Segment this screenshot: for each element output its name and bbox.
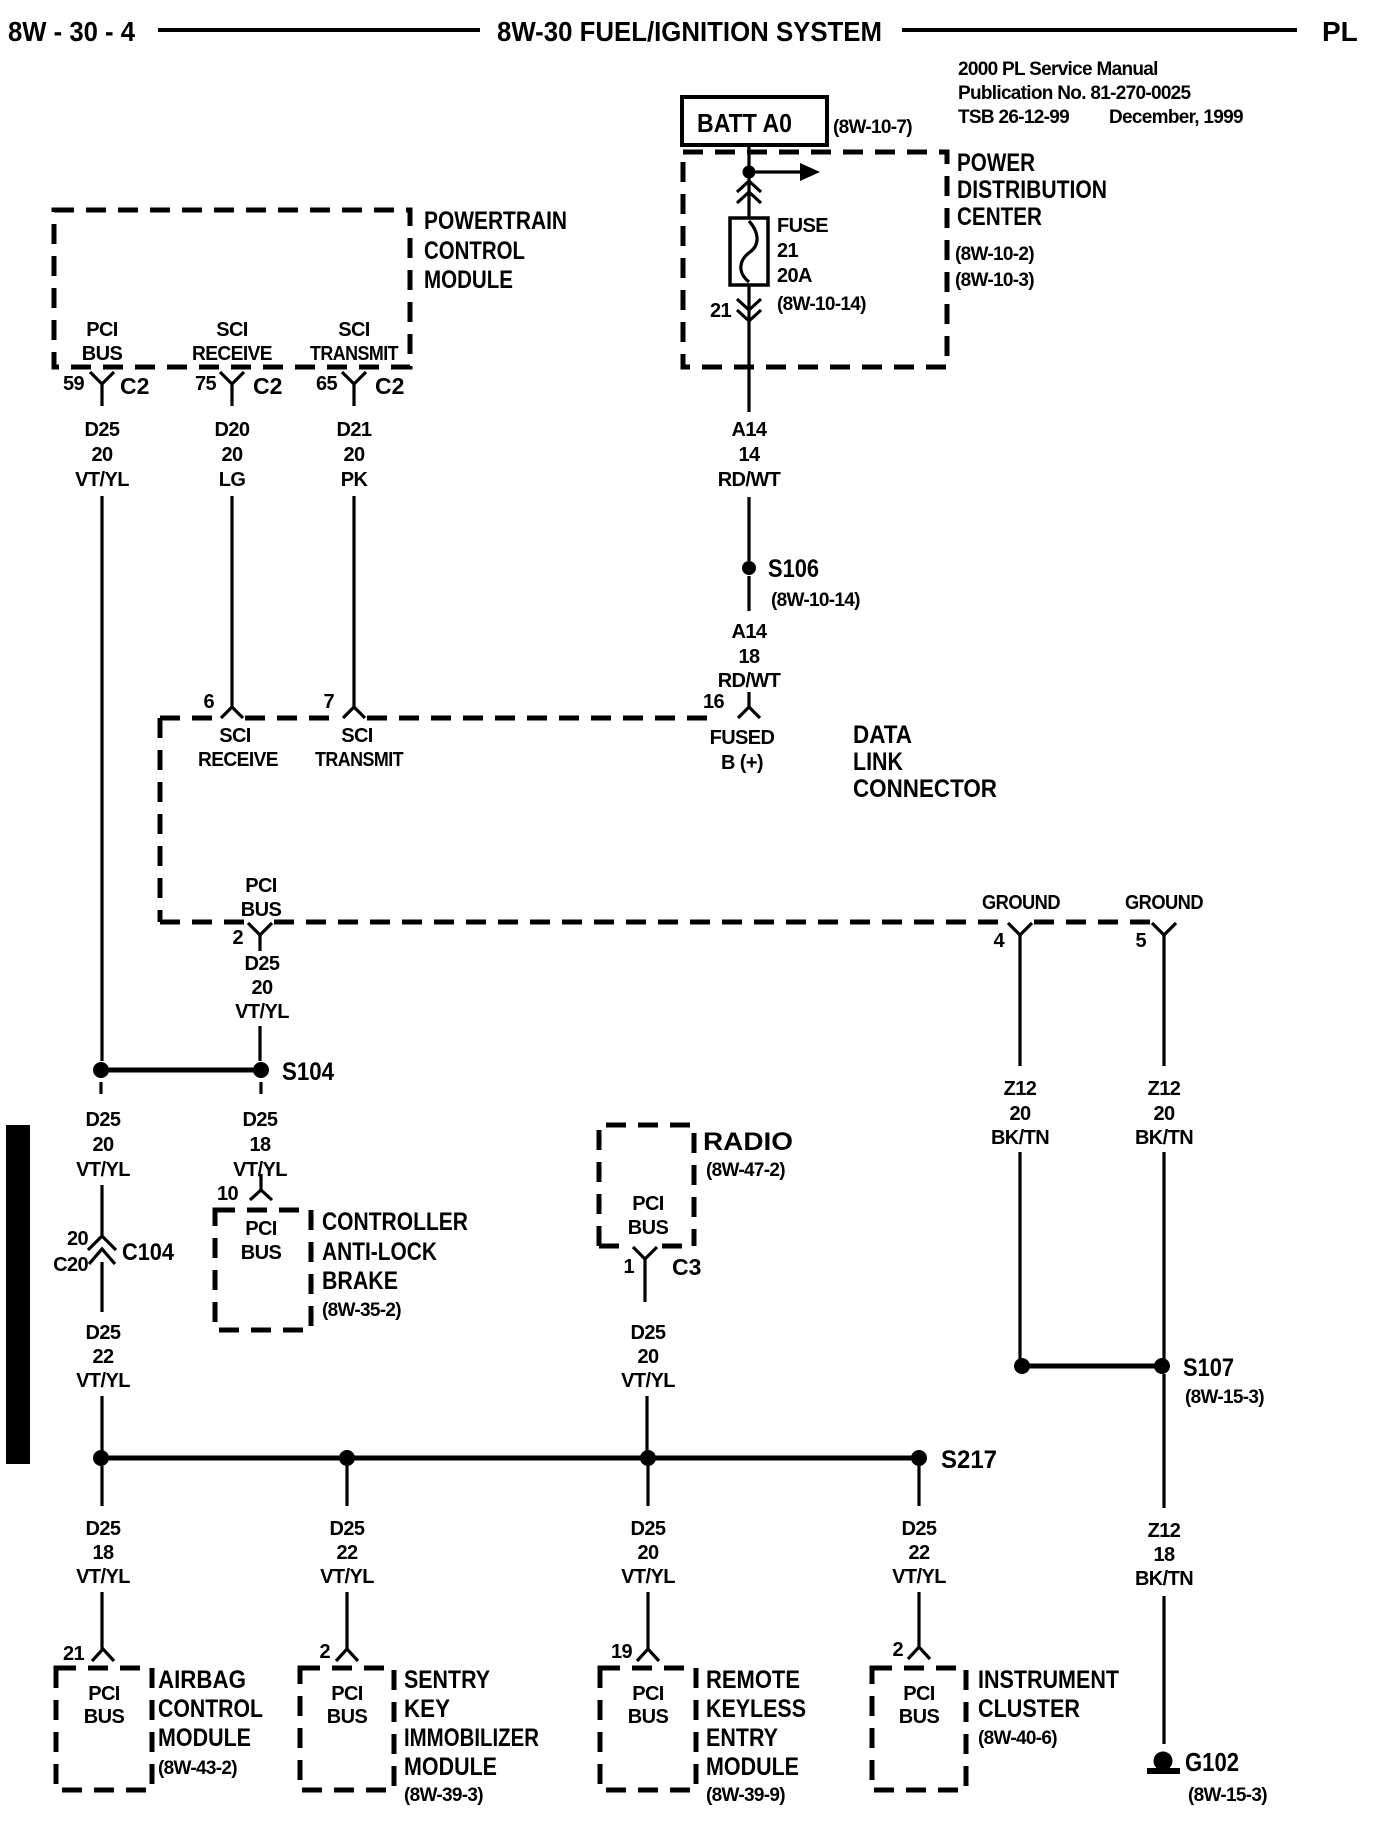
- node splice dot at PDC feed: [743, 166, 756, 179]
- wire S104 to CAB pin 10: [259, 1174, 262, 1192]
- svg-text:VT/YL: VT/YL: [76, 1566, 130, 1588]
- PCM pin label SCI RECEIVE: [192, 319, 272, 365]
- svg-text:(8W-40-6): (8W-40-6): [978, 1728, 1057, 1749]
- radio label: [703, 1128, 793, 1181]
- svg-text:20: 20: [1153, 1103, 1175, 1125]
- svg-text:Z12: Z12: [1004, 1078, 1037, 1100]
- svg-text:SENTRY: SENTRY: [404, 1666, 490, 1694]
- svg-text:CONTROLLER: CONTROLLER: [322, 1208, 468, 1236]
- instrument cluster label: [978, 1666, 1119, 1749]
- sentry key immobilizer module dashed box: [300, 1668, 394, 1790]
- svg-text:D25: D25: [243, 1109, 278, 1131]
- wire A14 to S106: [747, 497, 750, 561]
- ground G102 label: [1185, 1747, 1267, 1806]
- pin 1 connector C3 at radio: [633, 1247, 657, 1302]
- splice S217 dot 2: [339, 1450, 355, 1466]
- wire C104 to S217 upper: [100, 1262, 103, 1312]
- wire S217 to sentry lower: [345, 1592, 348, 1649]
- wire C104 to S217 lower: [100, 1396, 103, 1451]
- svg-text:RECEIVE: RECEIVE: [198, 749, 278, 771]
- CAB pin label PCI BUS: [241, 1218, 282, 1264]
- wire battery feed into PDC: [747, 146, 750, 218]
- svg-text:D21: D21: [337, 419, 372, 441]
- svg-text:CENTER: CENTER: [957, 203, 1042, 231]
- svg-text:18: 18: [249, 1134, 271, 1156]
- wire label D25 20 VT/YL below DLC pin 2: [235, 953, 289, 1023]
- wire label Z12 18 BK/TN: [1135, 1520, 1193, 1590]
- svg-text:(8W-39-9): (8W-39-9): [706, 1785, 785, 1806]
- svg-text:(8W-10-14): (8W-10-14): [777, 294, 866, 315]
- svg-text:BUS: BUS: [628, 1706, 669, 1728]
- svg-text:RD/WT: RD/WT: [718, 469, 781, 491]
- wire SCI RECEIVE to DLC pin 6: [230, 496, 233, 708]
- wire stub below S106: [747, 576, 750, 611]
- wire label A14 14 RD/WT: [718, 419, 781, 491]
- svg-text:KEY: KEY: [404, 1695, 450, 1723]
- svg-text:C3: C3: [672, 1254, 701, 1280]
- pin 2 connector at instrument cluster: [908, 1647, 930, 1659]
- svg-text:20A: 20A: [777, 265, 812, 287]
- wire S107 to G102 lower: [1162, 1596, 1165, 1744]
- svg-text:1: 1: [623, 1256, 634, 1278]
- svg-text:INSTRUMENT: INSTRUMENT: [978, 1666, 1119, 1694]
- svg-text:LINK: LINK: [853, 748, 903, 776]
- svg-text:20: 20: [637, 1542, 659, 1564]
- splice S217 dot 3: [640, 1450, 656, 1466]
- svg-text:20: 20: [1009, 1103, 1031, 1125]
- remote keyless entry module dashed box: [600, 1668, 696, 1790]
- svg-text:Z12: Z12: [1148, 1078, 1181, 1100]
- PCM pin label PCI BUS: [82, 319, 123, 365]
- sentry pin label PCI BUS: [327, 1683, 368, 1728]
- svg-text:(8W-15-3): (8W-15-3): [1188, 1785, 1267, 1806]
- radio dashed box: [599, 1125, 694, 1246]
- connector chevrons down at PDC exit: [737, 299, 761, 321]
- pin 2 connector at sentry module: [336, 1649, 358, 1661]
- header rule left: [158, 28, 480, 32]
- wire ground pin 4 to S107: [1018, 1152, 1021, 1359]
- svg-text:ANTI-LOCK: ANTI-LOCK: [322, 1238, 437, 1266]
- svg-text:December, 1999: December, 1999: [1109, 107, 1243, 128]
- svg-text:2: 2: [319, 1641, 330, 1663]
- wire label Z12 20 BK/TN left: [991, 1078, 1049, 1149]
- svg-text:BRAKE: BRAKE: [322, 1267, 398, 1295]
- PCM pin label SCI TRANSMIT: [310, 319, 398, 365]
- svg-text:(8W-43-2): (8W-43-2): [158, 1758, 237, 1779]
- wire label D21 20 PK: [337, 419, 372, 491]
- header rule right: [902, 28, 1297, 32]
- svg-text:(8W-47-2): (8W-47-2): [706, 1160, 785, 1181]
- pin 7 connector at DLC: [343, 707, 365, 718]
- radio pin label PCI BUS: [628, 1193, 669, 1239]
- sentry key immobilizer module label: [404, 1666, 539, 1806]
- svg-text:PCI: PCI: [331, 1683, 363, 1705]
- svg-text:21: 21: [710, 300, 732, 322]
- svg-text:C2: C2: [253, 373, 282, 399]
- svg-text:MODULE: MODULE: [424, 266, 513, 294]
- svg-text:RD/WT: RD/WT: [718, 670, 781, 692]
- svg-text:CONTROL: CONTROL: [158, 1695, 263, 1723]
- wire DLC pin 2 to S104: [258, 1026, 261, 1061]
- svg-text:RADIO: RADIO: [703, 1128, 793, 1156]
- svg-text:BUS: BUS: [327, 1706, 368, 1728]
- svg-text:16: 16: [703, 691, 725, 713]
- splice S107 label: [1183, 1354, 1264, 1408]
- pin 21 connector at airbag module: [92, 1649, 114, 1661]
- wire label D20 20 LG: [215, 419, 250, 491]
- svg-text:6: 6: [203, 691, 214, 713]
- svg-text:(8W-10-7): (8W-10-7): [833, 117, 912, 138]
- svg-text:A14: A14: [732, 621, 768, 643]
- svg-text:65: 65: [316, 373, 338, 395]
- splice S104 bus: [101, 1068, 261, 1073]
- svg-text:VT/YL: VT/YL: [235, 1001, 289, 1023]
- svg-text:BK/TN: BK/TN: [991, 1127, 1049, 1149]
- wire label D25 18 VT/YL below S104 right: [233, 1109, 287, 1181]
- svg-text:D25: D25: [86, 1109, 121, 1131]
- svg-text:SCI: SCI: [216, 319, 248, 341]
- svg-text:VT/YL: VT/YL: [892, 1566, 946, 1588]
- svg-text:FUSE: FUSE: [777, 215, 828, 237]
- svg-text:BUS: BUS: [628, 1217, 669, 1239]
- pin 4 connector at DLC: [1008, 923, 1032, 1066]
- svg-text:BATT A0: BATT A0: [697, 108, 792, 138]
- pin 75 connector C2: [220, 372, 244, 406]
- svg-text:20: 20: [92, 1134, 114, 1156]
- svg-text:BK/TN: BK/TN: [1135, 1127, 1193, 1149]
- svg-text:21: 21: [63, 1643, 85, 1665]
- airbag control module dashed box: [56, 1668, 152, 1790]
- svg-text:C20: C20: [53, 1254, 88, 1276]
- svg-text:PL: PL: [1322, 16, 1358, 47]
- wire S107 to G102 upper: [1162, 1374, 1165, 1508]
- svg-text:2: 2: [892, 1639, 903, 1661]
- svg-text:TSB 26-12-99: TSB 26-12-99: [958, 107, 1069, 128]
- splice S107 right dot: [1154, 1358, 1170, 1374]
- svg-text:S104: S104: [282, 1058, 334, 1086]
- wire label D25 22 VT/YL: [76, 1322, 130, 1392]
- svg-text:4: 4: [993, 930, 1005, 952]
- svg-text:2000 PL Service Manual: 2000 PL Service Manual: [958, 59, 1158, 80]
- svg-text:C104: C104: [122, 1239, 175, 1266]
- powertrain control module label: [424, 207, 567, 294]
- svg-text:5: 5: [1135, 930, 1146, 952]
- svg-text:20: 20: [91, 444, 113, 466]
- wire radio to S217: [645, 1396, 648, 1451]
- svg-text:Publication No. 81-270-0025: Publication No. 81-270-0025: [958, 83, 1192, 104]
- connector chevrons up at PDC: [737, 181, 761, 203]
- battery feed box BATT A0: [682, 97, 827, 145]
- airbag pin label PCI BUS: [84, 1683, 125, 1728]
- wire label Z12 20 BK/TN right: [1135, 1078, 1193, 1149]
- wire S217 to airbag lower: [100, 1592, 103, 1649]
- page edge black sidebar: [6, 1125, 30, 1464]
- wire label A14 18 RD/WT: [718, 621, 781, 692]
- svg-text:(8W-39-3): (8W-39-3): [404, 1785, 483, 1806]
- svg-text:20: 20: [343, 444, 365, 466]
- svg-text:VT/YL: VT/YL: [621, 1566, 675, 1588]
- svg-text:G102: G102: [1185, 1747, 1239, 1777]
- note service manual info block: [958, 59, 1243, 128]
- svg-text:MODULE: MODULE: [404, 1753, 497, 1781]
- svg-text:18: 18: [738, 646, 760, 668]
- svg-text:8W-30 FUEL/IGNITION SYSTEM: 8W-30 FUEL/IGNITION SYSTEM: [497, 16, 882, 47]
- pin 16 connector at DLC: [738, 707, 760, 718]
- svg-text:75: 75: [195, 373, 217, 395]
- in-line connector C104 chevrons: [88, 1236, 116, 1264]
- wire label D25 20 VT/YL: [621, 1518, 675, 1588]
- airbag control module label: [158, 1666, 263, 1779]
- ground G102 symbol: [1147, 1752, 1180, 1772]
- wire label D25 18 VT/YL: [76, 1518, 130, 1588]
- remote keyless entry module label: [706, 1666, 806, 1806]
- svg-text:FUSED: FUSED: [710, 727, 775, 749]
- svg-text:MODULE: MODULE: [706, 1753, 799, 1781]
- svg-text:18: 18: [92, 1542, 114, 1564]
- splice S106: [742, 561, 756, 575]
- svg-text:D25: D25: [85, 419, 120, 441]
- svg-text:SCI: SCI: [341, 725, 373, 747]
- svg-text:REMOTE: REMOTE: [706, 1666, 800, 1694]
- splice S107 bus: [1022, 1364, 1162, 1369]
- svg-text:GROUND: GROUND: [982, 892, 1060, 914]
- wire S217 to cluster lower: [917, 1592, 920, 1647]
- svg-text:LG: LG: [219, 469, 246, 491]
- svg-text:21: 21: [777, 240, 799, 262]
- wire S217 to cluster upper: [917, 1466, 920, 1506]
- splice S106 label: [768, 555, 860, 611]
- svg-text:TRANSMIT: TRANSMIT: [315, 749, 403, 771]
- svg-text:C2: C2: [375, 373, 404, 399]
- data link connector label: [853, 721, 997, 803]
- wire S217 to airbag upper: [100, 1466, 103, 1506]
- svg-text:CLUSTER: CLUSTER: [978, 1695, 1080, 1723]
- svg-text:S106: S106: [768, 555, 819, 583]
- svg-text:CONTROL: CONTROL: [424, 237, 525, 265]
- svg-text:BK/TN: BK/TN: [1135, 1568, 1193, 1590]
- svg-text:BUS: BUS: [82, 343, 123, 365]
- svg-text:PCI: PCI: [86, 319, 118, 341]
- svg-text:GROUND: GROUND: [1125, 892, 1203, 914]
- splice S217 dot 1: [93, 1450, 109, 1466]
- svg-text:20: 20: [251, 977, 273, 999]
- svg-text:S217: S217: [941, 1446, 997, 1474]
- pin 6 connector at DLC: [221, 707, 243, 718]
- svg-text:PK: PK: [341, 469, 369, 491]
- splice S107 left dot: [1014, 1358, 1030, 1374]
- wire stub below S104 right: [259, 1082, 262, 1094]
- svg-text:(8W-10-2): (8W-10-2): [955, 244, 1034, 265]
- svg-text:Z12: Z12: [1148, 1520, 1181, 1542]
- svg-text:BUS: BUS: [241, 1242, 282, 1264]
- svg-text:PCI: PCI: [632, 1683, 664, 1705]
- power distribution center dashed box: [683, 152, 947, 367]
- wire label D25 20 VT/YL below S104 left: [76, 1109, 130, 1181]
- svg-text:BUS: BUS: [84, 1706, 125, 1728]
- svg-text:(8W-10-3): (8W-10-3): [955, 270, 1034, 291]
- svg-text:D20: D20: [215, 419, 250, 441]
- svg-text:D25: D25: [330, 1518, 365, 1540]
- splice S104 right dot: [253, 1062, 269, 1078]
- svg-text:TRANSMIT: TRANSMIT: [310, 343, 398, 365]
- svg-text:PCI: PCI: [903, 1683, 935, 1705]
- svg-text:20: 20: [637, 1346, 659, 1368]
- wire fuse output A14: [747, 285, 750, 412]
- fuse 21 20A: [730, 218, 768, 285]
- pin 2 connector at DLC: [248, 923, 272, 951]
- wire label D25 22 VT/YL: [892, 1518, 946, 1588]
- svg-text:SCI: SCI: [338, 319, 370, 341]
- wire S104 to C104: [100, 1185, 103, 1235]
- wire into DLC pin 16: [747, 692, 750, 707]
- svg-text:S107: S107: [1183, 1354, 1234, 1382]
- DLC pin label FUSED B(+): [710, 727, 775, 774]
- svg-text:(8W-15-3): (8W-15-3): [1185, 1387, 1264, 1408]
- svg-text:22: 22: [908, 1542, 930, 1564]
- svg-text:7: 7: [323, 691, 334, 713]
- svg-text:BUS: BUS: [241, 899, 282, 921]
- svg-text:PCI: PCI: [88, 1683, 120, 1705]
- wire SCI TRANSMIT to DLC pin 7: [352, 496, 355, 708]
- wire label D25 22 VT/YL: [320, 1518, 374, 1588]
- svg-text:59: 59: [63, 373, 85, 395]
- pin 5 connector at DLC: [1152, 923, 1176, 1066]
- splice S104 left dot: [93, 1062, 109, 1078]
- svg-text:RECEIVE: RECEIVE: [192, 343, 272, 365]
- svg-text:PCI: PCI: [632, 1193, 664, 1215]
- svg-text:10: 10: [217, 1183, 239, 1205]
- svg-text:VT/YL: VT/YL: [76, 1159, 130, 1181]
- svg-text:PCI: PCI: [245, 875, 277, 897]
- svg-text:14: 14: [738, 444, 761, 466]
- svg-text:D25: D25: [86, 1518, 121, 1540]
- powertrain control module dashed box: [54, 210, 410, 367]
- DLC pin label SCI TRANSMIT: [315, 725, 403, 771]
- wire S217 to sentry upper: [345, 1466, 348, 1506]
- splice S217 bus: [101, 1456, 919, 1461]
- cluster pin label PCI BUS: [899, 1683, 940, 1728]
- svg-text:D25: D25: [86, 1322, 121, 1344]
- svg-text:AIRBAG: AIRBAG: [158, 1666, 246, 1694]
- fuse label: [777, 215, 866, 315]
- svg-text:8W - 30 - 4: 8W - 30 - 4: [8, 16, 135, 47]
- wire S217 to RKE upper: [646, 1466, 649, 1506]
- svg-text:VT/YL: VT/YL: [320, 1566, 374, 1588]
- pin 59 connector C2: [90, 372, 114, 406]
- svg-text:22: 22: [92, 1346, 114, 1368]
- power distribution center label: [955, 149, 1107, 291]
- svg-text:D25: D25: [902, 1518, 937, 1540]
- svg-text:18: 18: [1153, 1544, 1175, 1566]
- splice S217 dot 4: [911, 1450, 927, 1466]
- wire stub below S104 left: [99, 1082, 102, 1094]
- svg-text:22: 22: [336, 1542, 358, 1564]
- svg-text:POWER: POWER: [957, 149, 1035, 177]
- svg-text:B (+): B (+): [721, 752, 763, 774]
- controller anti-lock brake label: [322, 1208, 468, 1321]
- wire PCI BUS from PCM to S104: [100, 496, 103, 1061]
- svg-text:VT/YL: VT/YL: [75, 469, 129, 491]
- svg-text:POWERTRAIN: POWERTRAIN: [424, 207, 567, 235]
- pin 10 connector at CAB: [250, 1190, 272, 1200]
- svg-text:PCI: PCI: [245, 1218, 277, 1240]
- svg-text:DATA: DATA: [853, 721, 912, 749]
- svg-text:(8W-35-2): (8W-35-2): [322, 1300, 401, 1321]
- wire ground pin 5 to S107: [1162, 1152, 1165, 1359]
- svg-text:20: 20: [221, 444, 243, 466]
- wire label D25 20 VT/YL: [75, 419, 129, 491]
- arrow feed to other circuits: [749, 163, 820, 181]
- controller anti-lock brake dashed box: [215, 1210, 311, 1330]
- wire label D25 20 VT/YL below radio: [621, 1322, 675, 1392]
- svg-text:2: 2: [232, 927, 243, 949]
- svg-text:VT/YL: VT/YL: [76, 1370, 130, 1392]
- svg-text:(8W-10-14): (8W-10-14): [771, 590, 860, 611]
- svg-text:A14: A14: [732, 419, 768, 441]
- svg-text:DISTRIBUTION: DISTRIBUTION: [957, 176, 1107, 204]
- DLC pin label PCI BUS: [241, 875, 282, 921]
- svg-text:D25: D25: [631, 1322, 666, 1344]
- instrument cluster dashed box: [872, 1668, 966, 1790]
- svg-text:19: 19: [611, 1641, 633, 1663]
- data link connector dashed outline: [160, 718, 1150, 922]
- pin 19 connector at RKE module: [637, 1649, 659, 1661]
- wire S217 to RKE lower: [646, 1592, 649, 1649]
- svg-text:VT/YL: VT/YL: [621, 1370, 675, 1392]
- svg-text:ENTRY: ENTRY: [706, 1724, 778, 1752]
- svg-text:MODULE: MODULE: [158, 1724, 251, 1752]
- svg-text:D25: D25: [631, 1518, 666, 1540]
- svg-text:D25: D25: [245, 953, 280, 975]
- svg-text:SCI: SCI: [219, 725, 251, 747]
- svg-text:C2: C2: [120, 373, 149, 399]
- svg-text:CONNECTOR: CONNECTOR: [853, 775, 997, 803]
- svg-text:KEYLESS: KEYLESS: [706, 1695, 806, 1723]
- svg-text:IMMOBILIZER: IMMOBILIZER: [404, 1724, 539, 1752]
- RKE pin label PCI BUS: [628, 1683, 669, 1728]
- DLC pin label SCI RECEIVE: [198, 725, 278, 771]
- svg-text:BUS: BUS: [899, 1706, 940, 1728]
- pin 65 connector C2: [342, 372, 366, 406]
- svg-text:20: 20: [67, 1228, 89, 1250]
